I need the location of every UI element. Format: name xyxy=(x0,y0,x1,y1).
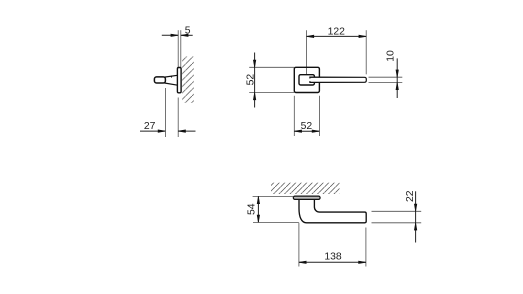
lever bar left edge gap xyxy=(309,79,311,82)
svg-text:138: 138 xyxy=(324,252,342,263)
dimension 5 line right tail xyxy=(181,34,193,36)
extension line lever tip xyxy=(365,30,367,74)
dimension 52 bottom extension left xyxy=(293,96,295,136)
dimension 22 extension top xyxy=(372,210,422,212)
svg-text:122: 122 xyxy=(328,26,346,37)
dimension 27 arrow right xyxy=(178,130,185,133)
lever neck side view xyxy=(165,75,179,85)
rose side view xyxy=(177,68,181,93)
dimension 52 left extension top xyxy=(249,66,294,68)
dimension 122 line xyxy=(307,35,367,37)
dimension 27 arrow left xyxy=(158,130,165,133)
dimension 10 line xyxy=(396,58,398,98)
extension line rose front face (upper) xyxy=(177,30,179,67)
dimension 138 arrow left xyxy=(299,261,306,264)
svg-text:52: 52 xyxy=(301,121,313,132)
svg-text:10: 10 xyxy=(386,50,397,62)
dimension 138 arrow right xyxy=(359,261,366,264)
dimension 52 bottom extension right xyxy=(318,96,320,136)
dimension 22 extension bottom xyxy=(372,222,422,224)
lever grip cap side view xyxy=(154,77,165,83)
svg-text:22: 22 xyxy=(405,190,416,202)
extension line handle centre (inside rose) xyxy=(306,68,308,75)
dimension 138 extension right xyxy=(365,228,367,267)
dimension 22 arrow top xyxy=(414,204,417,211)
dimension 5 arrow right xyxy=(181,34,188,37)
wall hatching top view xyxy=(271,183,340,194)
dimension 52 left line xyxy=(254,53,256,108)
dimension 122 arrow right xyxy=(359,35,366,38)
dimension 10 extension bottom xyxy=(369,81,403,83)
svg-text:52: 52 xyxy=(245,74,256,86)
dimension 52 left extension bottom xyxy=(249,92,294,94)
svg-text:54: 54 xyxy=(246,203,257,215)
dimension 52 bottom arrow right xyxy=(312,130,319,133)
dimension 54 extension top xyxy=(253,195,294,197)
dimension 22 arrow bottom xyxy=(414,223,417,230)
rose top view xyxy=(293,196,320,199)
dimension 10 extension top xyxy=(369,76,403,78)
dimension 54 arrow top xyxy=(257,196,260,203)
extension line door face (upper) xyxy=(180,30,182,67)
rose square front view xyxy=(294,67,319,92)
dimension 54 line xyxy=(257,196,259,222)
wall hatching side view xyxy=(182,57,194,104)
extension line handle centre xyxy=(306,30,308,74)
dimension 52 bottom line xyxy=(294,130,319,132)
dimension 5 arrow left xyxy=(171,34,178,37)
dimension 27 line left xyxy=(140,130,165,132)
svg-text:5: 5 xyxy=(185,26,191,37)
dimension 138 extension left xyxy=(298,223,300,267)
dimension 54 extension bottom xyxy=(253,221,299,223)
extension line rose front face (lower) xyxy=(177,98,179,138)
dimension 27 line right xyxy=(178,130,195,132)
extension line lever axis xyxy=(164,88,166,137)
dimension 5 line left tail xyxy=(162,34,178,36)
dimension 10 arrow top xyxy=(396,70,399,77)
handle profile top view xyxy=(299,198,366,223)
dimension 52 left arrow bottom xyxy=(253,93,256,100)
dimension 54 arrow bottom xyxy=(257,215,260,222)
dimension 10 arrow bottom xyxy=(396,82,399,89)
lever bar front view xyxy=(310,77,366,82)
dimension 52 bottom arrow left xyxy=(294,130,301,133)
dimension 122 arrow left xyxy=(307,35,314,38)
dimension 138 line xyxy=(299,261,366,263)
dimension 22 line xyxy=(415,191,417,242)
svg-text:27: 27 xyxy=(144,121,156,132)
dimension 52 left arrow top xyxy=(253,60,256,67)
neck square front view xyxy=(299,75,314,85)
